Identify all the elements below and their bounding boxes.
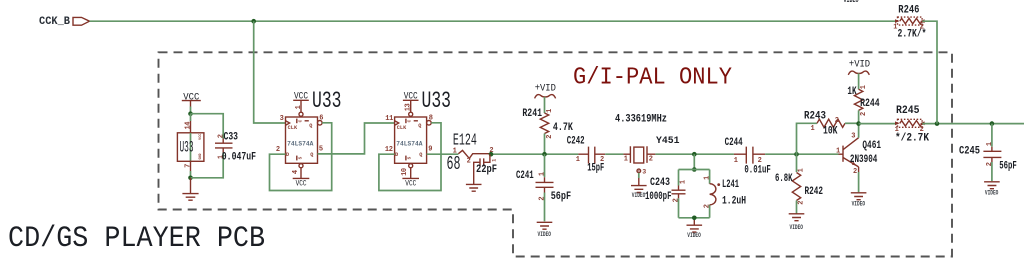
inductor L241 [704,176,746,209]
svg-text:1: 1 [453,147,457,155]
flip-flop U33B 74LS74A [395,117,432,163]
wire crystal pin3 to ground [638,173,640,178]
resistor R245 [895,105,930,144]
pin 7 [185,161,193,172]
svg-text:Q: Q [310,152,313,158]
svg-text:VCC: VCC [296,178,307,188]
svg-text:1: 1 [491,159,497,162]
svg-text:2: 2 [920,126,924,134]
wire Q1 to CLK2 [318,123,395,154]
ground [466,184,482,191]
svg-text:S: S [299,156,304,159]
svg-text:15pF: 15pF [587,162,604,174]
svg-text:1: 1 [679,180,687,184]
capacitor C243 [645,177,687,203]
svg-text:1: 1 [734,157,738,165]
svg-text:2: 2 [649,155,653,163]
wire R242 to ground [796,201,798,214]
svg-text:2: 2 [600,156,604,164]
svg-text:22pF: 22pF [476,164,497,176]
node junction top [251,19,256,24]
svg-text:Q: Q [309,123,312,129]
svg-text:VCC: VCC [183,91,199,103]
capacitor C241 [516,170,571,203]
node junction [188,176,193,181]
svg-text:CLK: CLK [397,125,407,131]
svg-text:GND: GND [199,153,203,159]
svg-text:1: 1 [797,168,805,172]
svg-text:2: 2 [546,134,554,138]
component U33 power unit [177,133,204,162]
ground VIDEO [537,222,553,238]
svg-text:6.8K: 6.8K [775,173,793,185]
wire C244 to base [765,153,838,155]
svg-text:U33: U33 [422,88,452,115]
connector CCK_B [73,17,90,25]
power VCC above U33B [403,92,419,117]
resistor R243 [804,110,845,137]
wire R241 to node [544,134,546,155]
pin numbers U33B [385,115,433,155]
svg-text:D: D [286,152,289,158]
svg-text:Y451: Y451 [656,136,680,147]
wire to pin 14 [190,114,192,121]
capacitor C245 [959,142,1017,173]
resistor R241 [522,108,573,139]
svg-text:0.01uF: 0.01uF [744,165,770,177]
svg-text:C242: C242 [567,136,585,148]
resistor R242 [775,168,823,205]
wire Q2 to E124 [427,153,459,155]
node junction tank bottom [692,216,697,221]
capacitor C33 [215,132,256,164]
svg-text:G/I-PAL ONLY: G/I-PAL ONLY [573,65,732,92]
wire C241 to ground [544,193,546,222]
svg-text:VIDEO: VIDEO [844,0,859,4]
svg-text:R242: R242 [805,186,824,198]
svg-text:1: 1 [895,126,899,134]
svg-text:CLK: CLK [288,125,298,131]
capacitor C242 [567,136,604,175]
wire feedback loop U33B [379,123,441,191]
svg-text:R241: R241 [522,108,542,120]
wire to C33 top [191,114,224,139]
svg-text:U33: U33 [180,139,194,157]
ground VIDEO (R242) [789,214,805,231]
svg-text:10: 10 [401,168,409,176]
ground VIDEO (crystal) [631,186,647,200]
dashed PCB boundary [159,52,953,256]
svg-text:74LS74A: 74LS74A [287,141,314,148]
svg-text:68: 68 [447,153,461,175]
power +VID (R241) [535,83,556,98]
svg-text:2: 2 [860,112,868,116]
resistor R244 [847,85,880,116]
svg-text:2: 2 [797,201,805,205]
node junction collector [856,121,861,126]
svg-text:2: 2 [276,146,280,154]
svg-text:1: 1 [624,155,628,163]
capacitor 22pF [474,154,498,184]
wire base column up to R243 [797,123,818,154]
wire tank loop [679,170,710,218]
svg-text:1: 1 [860,85,868,89]
svg-text:C245: C245 [959,146,980,158]
svg-text:1000pF: 1000pF [645,191,672,203]
svg-text:2: 2 [467,158,471,166]
ferrite bead E124 [447,131,494,175]
svg-text:CCK_B: CCK_B [39,16,70,28]
wire top horizontal [90,20,898,22]
transistor Q461 [836,132,881,176]
node junction [188,111,193,116]
node junction tank top [692,152,697,157]
wire C242 to Y451 [605,153,623,155]
wire pin7 to ground [190,171,192,178]
svg-text:6: 6 [319,115,323,123]
svg-text:14: 14 [185,122,193,130]
svg-text:L241: L241 [722,179,739,191]
node junction R241/C241 [542,152,547,157]
node junction E124 output [489,152,494,157]
wire R246 down to node [922,21,937,123]
svg-text:3: 3 [280,115,284,123]
svg-text:2: 2 [835,117,839,125]
svg-text:C243: C243 [650,177,670,189]
svg-text:VIDEO: VIDEO [632,192,646,199]
svg-text:VIDEO: VIDEO [985,189,999,196]
wire collector [858,124,860,138]
node junction tank split [692,167,697,172]
svg-text:56pF: 56pF [999,161,1017,173]
svg-text:D: D [395,152,398,158]
wire C33 bottom to junction [191,153,224,178]
svg-text:3: 3 [642,168,646,175]
svg-text:1: 1 [811,125,815,133]
wire feedback loop U33A [270,123,332,191]
wire VCC stub [190,107,192,114]
capacitor C244 [725,137,771,176]
wire +VID to R244 [858,73,860,89]
svg-text:R243: R243 [804,110,826,122]
svg-text:1: 1 [576,156,580,164]
svg-text:1: 1 [893,24,897,32]
svg-text:2N3904: 2N3904 [850,154,878,166]
pin numbers U33A [276,115,324,155]
wire node to C245 [991,124,993,147]
wire R244 to collector node [858,110,860,123]
svg-text:CD/GS PLAYER PCB: CD/GS PLAYER PCB [8,222,265,256]
svg-text:2: 2 [704,204,712,208]
wire emitter to ground [858,172,860,192]
svg-text:2: 2 [758,157,762,165]
crystal Y451 [624,136,680,175]
svg-text:5: 5 [319,145,323,153]
wire node to C241 [544,154,546,177]
ground VIDEO (tank) [687,225,703,239]
svg-text:1: 1 [704,176,712,180]
svg-text:1K: 1K [847,86,856,98]
svg-text:8: 8 [429,115,433,123]
svg-text:13: 13 [405,103,413,111]
power VCC below U33A [292,164,310,189]
wire R243 to collector node [845,122,859,124]
svg-text:Q: Q [418,123,421,129]
svg-text:R246: R246 [898,4,919,16]
power VCC above U33A [293,92,309,117]
svg-text:4.7K: 4.7K [553,122,573,134]
wire R245 to edge [922,123,1024,125]
svg-text:R245: R245 [896,105,920,117]
svg-text:VCC: VCC [199,134,203,140]
wire drop to CLK1 [254,21,286,123]
svg-text:74LS74A: 74LS74A [396,141,423,148]
power VCC below U33B [401,164,419,189]
svg-text:10K: 10K [823,126,838,138]
svg-text:C244: C244 [725,137,743,149]
svg-text:C: C [299,119,304,122]
node junction C245 [990,121,995,126]
node junction R245/R246 [935,121,940,126]
svg-text:56pF: 56pF [551,191,571,203]
svg-text:1: 1 [538,172,546,176]
resistor R246 [893,4,926,40]
svg-text:4.33619MHz: 4.33619MHz [615,114,667,126]
svg-text:VIDEO: VIDEO [852,200,866,207]
svg-text:1: 1 [546,109,554,113]
svg-text:+VID: +VID [849,60,870,71]
svg-text:1: 1 [986,142,994,146]
svg-text:VIDEO: VIDEO [790,224,804,231]
svg-text:R244: R244 [860,98,880,110]
svg-text:2: 2 [920,24,924,32]
svg-text:C: C [408,119,413,122]
svg-text:0.047uF: 0.047uF [222,152,256,164]
svg-text:U33: U33 [312,88,342,115]
ground VIDEO (emitter) [851,193,867,208]
svg-text:1: 1 [295,105,303,109]
node junction base [794,152,799,157]
svg-text:Q: Q [419,152,422,158]
power +VID (R244) [848,60,870,75]
svg-text:2: 2 [673,198,681,202]
svg-text:11: 11 [385,115,393,123]
svg-text:1: 1 [836,147,840,155]
svg-text:S: S [408,156,413,159]
power VCC (left U33 unit) [182,91,201,106]
ground [182,178,198,200]
svg-text:2: 2 [853,168,857,176]
svg-text:9: 9 [428,145,432,153]
wire Y451 to C244 [655,153,734,155]
wire E124 node to C242 [490,153,578,155]
svg-text:Q461: Q461 [862,140,881,152]
svg-text:1.2uH: 1.2uH [722,195,746,207]
wire base column down to R242 [796,154,798,172]
ground VIDEO (C245) [984,182,1000,197]
svg-text:*/2.7K: */2.7K [895,132,929,144]
svg-text:3: 3 [851,132,855,140]
svg-text:VIDEO: VIDEO [687,232,701,239]
wire C245 to ground [991,162,993,181]
svg-text:C241: C241 [516,170,534,182]
svg-text:4: 4 [292,170,300,174]
svg-text:12: 12 [385,146,393,154]
svg-text:C33: C33 [224,132,239,144]
flip-flop U33A 74LS74A [286,117,323,163]
svg-text:+VID: +VID [535,83,556,94]
wire +VID to R241 [544,97,546,113]
pin 14 [185,121,193,132]
svg-text:7: 7 [185,164,193,168]
svg-text:VIDEO: VIDEO [538,231,552,238]
wire node to tank [693,154,695,169]
wire collector node to R245 [859,123,898,125]
svg-text:VCC: VCC [405,178,416,188]
